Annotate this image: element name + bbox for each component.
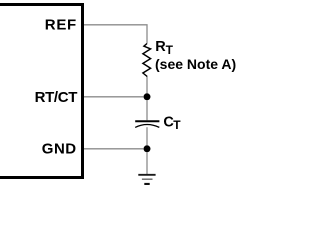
svg-text:REF: REF <box>45 17 77 34</box>
svg-text:T: T <box>173 118 181 132</box>
svg-text:T: T <box>166 43 174 57</box>
svg-text:GND: GND <box>42 141 77 158</box>
svg-text:RT/CT: RT/CT <box>35 89 78 106</box>
svg-text:(see Note A): (see Note A) <box>155 56 236 72</box>
